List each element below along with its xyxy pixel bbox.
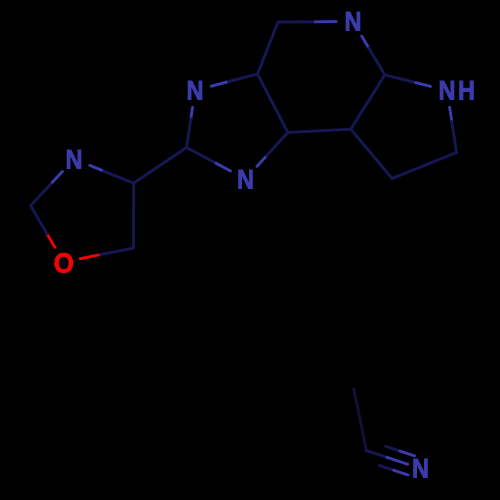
svg-text:H: H: [458, 76, 475, 106]
svg-text:N: N: [412, 454, 429, 484]
svg-text:N: N: [66, 145, 83, 175]
svg-text:N: N: [237, 165, 254, 195]
svg-text:N: N: [439, 76, 456, 106]
svg-text:N: N: [345, 7, 362, 37]
svg-text:N: N: [187, 76, 204, 106]
svg-text:O: O: [54, 247, 74, 278]
